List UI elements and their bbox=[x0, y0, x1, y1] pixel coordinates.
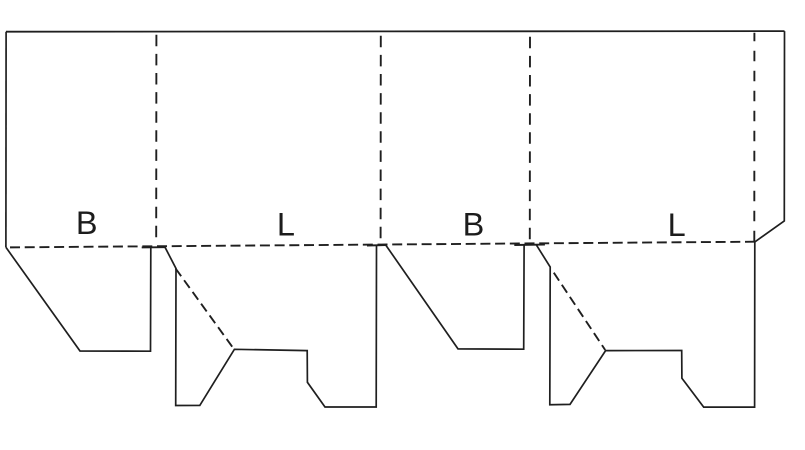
horizontal bottom fold line bbox=[6, 242, 755, 248]
dashed fold diagonal inside L1 flap bbox=[176, 269, 234, 350]
solid tick on fold line at B1/L1 junction bbox=[142, 246, 165, 248]
vertical fold line between L1 and B2 bbox=[380, 33, 382, 239]
solid tick on fold line at L1/B2 junction bbox=[367, 244, 386, 246]
vertical fold line between L2 and glue flap bbox=[753, 33, 755, 242]
vertical fold line between B2 and L2 bbox=[529, 33, 531, 240]
svg-text:L: L bbox=[277, 207, 295, 243]
vertical fold line between B1 and L1 bbox=[155, 33, 157, 238]
solid tick on fold line at B2/L2 junction bbox=[514, 244, 545, 246]
top cut edge bbox=[6, 30, 785, 33]
bottom flap under B1 cut outline bbox=[6, 247, 151, 351]
bottom tuck flap under L1 cut outline bbox=[165, 245, 377, 407]
svg-text:L: L bbox=[668, 207, 686, 243]
right glue flap cut edge bbox=[755, 31, 785, 242]
svg-text:B: B bbox=[76, 205, 98, 241]
left cut edge of panel B1 bbox=[5, 32, 7, 248]
bottom flap under B2 cut outline bbox=[386, 245, 524, 349]
dashed fold diagonal inside L2 flap bbox=[554, 273, 605, 350]
svg-text:B: B bbox=[463, 207, 485, 243]
bottom tuck flap under L2 cut outline bbox=[536, 242, 755, 407]
